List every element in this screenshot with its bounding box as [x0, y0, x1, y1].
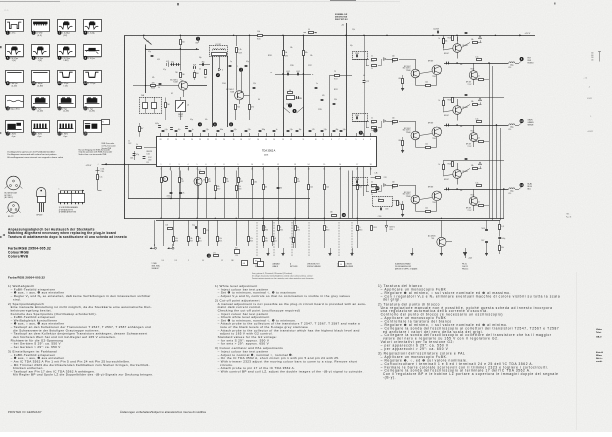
svg-text:1k: 1k — [158, 87, 160, 89]
resistor 1k left of IC — [135, 144, 157, 160]
svg-text:2,2k: 2,2k — [208, 179, 211, 181]
svg-text:50µs 4Vss: 50µs 4Vss — [10, 108, 19, 110]
labels top pin row numbers — [161, 169, 372, 171]
svg-text:14: 14 — [308, 169, 310, 171]
svg-text:10: 10 — [251, 164, 253, 166]
svg-text:150: 150 — [591, 59, 594, 61]
svg-text:C294: C294 — [355, 179, 359, 181]
svg-text:T248: T248 — [230, 91, 234, 93]
svg-text:1,8k: 1,8k — [257, 31, 260, 33]
output stage GRÜN output coil — [508, 124, 519, 131]
svg-text:1k: 1k — [371, 118, 373, 120]
svg-text:100n: 100n — [163, 179, 167, 181]
svg-text:56k: 56k — [501, 247, 504, 249]
page top edge marks — [0, 1, 556, 13]
junction dots on bus — [160, 218, 442, 219]
svg-text:1 Vss: 1 Vss — [10, 33, 15, 35]
svg-text:47µ: 47µ — [181, 179, 184, 181]
svg-text:330: 330 — [280, 188, 283, 190]
svg-text:T2568: T2568 — [406, 196, 411, 198]
wire left bus vertical — [124, 35, 126, 219]
svg-text:15: 15 — [323, 169, 325, 171]
capacitor row above IC — [155, 123, 188, 130]
svg-text:C280: C280 — [378, 216, 382, 218]
badge 10 below pin17 — [375, 186, 379, 190]
svg-text:R324: R324 — [274, 240, 277, 242]
oscillogram 18 waveform box — [32, 121, 50, 138]
transistor T233 BC548C right — [226, 89, 249, 104]
svg-text:16: 16 — [339, 169, 341, 171]
svg-text:4,43µ: 4,43µ — [155, 123, 159, 125]
svg-text:56k: 56k — [460, 190, 463, 192]
svg-text:R301: R301 — [280, 229, 284, 231]
svg-text:4 10/12: 4 10/12 — [587, 98, 592, 100]
capacitor cluster left-under IC — [130, 154, 145, 160]
svg-text:BF 469: BF 469 — [37, 215, 43, 217]
terminal number labels below bus — [162, 260, 234, 262]
output stage BLAU transistor BC558C — [403, 185, 420, 211]
svg-text:R234: R234 — [268, 55, 272, 57]
svg-text:27: 27 — [167, 139, 169, 141]
svg-text:4 µs: 4 µs — [12, 136, 16, 138]
svg-text:24: 24 — [191, 139, 193, 141]
svg-text:740: 740 — [175, 72, 178, 74]
svg-text:100k: 100k — [254, 182, 258, 184]
svg-text:14: 14 — [308, 164, 310, 166]
svg-text:(1,4V): (1,4V) — [38, 111, 44, 113]
oscillogram 17 waveform box — [6, 121, 24, 138]
german instructions column — [8, 284, 154, 377]
svg-text:C311: C311 — [163, 181, 166, 183]
output stage GRÜN output badge GRÜN — [519, 119, 534, 127]
svg-text:1,5k: 1,5k — [476, 118, 479, 120]
svg-text:... 1 b.: ... 1 b. — [583, 78, 588, 80]
output stage ROT resistor 56k feedback — [461, 39, 481, 48]
svg-text:R313: R313 — [208, 181, 212, 183]
svg-text:150: 150 — [297, 179, 300, 181]
svg-text:C302: C302 — [290, 238, 294, 240]
svg-text:4,7µ: 4,7µ — [234, 129, 237, 131]
svg-text:R307: R307 — [217, 188, 221, 190]
bottom right cut-off margin text — [596, 329, 603, 363]
oscillogram 9 waveform box — [6, 71, 24, 88]
svg-text:10: 10 — [315, 139, 317, 141]
+4,43 test point — [463, 253, 472, 260]
output stage ROT input resistor 220 — [392, 56, 411, 64]
connector box mid 10 — [339, 262, 345, 267]
svg-text:R265: R265 — [371, 61, 375, 63]
svg-text:15: 15 — [265, 139, 267, 141]
svg-text:8: 8 — [224, 164, 225, 166]
svg-text:1k: 1k — [478, 138, 480, 140]
oscillogram 12 waveform box — [83, 71, 101, 86]
svg-text:R252: R252 — [334, 79, 338, 81]
svg-text:C234: C234 — [355, 53, 359, 55]
svg-text:R323: R323 — [265, 240, 268, 242]
svg-text:4,7µ: 4,7µ — [136, 154, 139, 156]
svg-text:Videu: Videu — [596, 329, 603, 331]
svg-text:150: 150 — [297, 227, 300, 229]
svg-text:Colore/RVB: Colore/RVB — [8, 254, 29, 258]
resistor 10k on rail right — [303, 29, 316, 34]
svg-text:12: 12 — [277, 169, 279, 171]
svg-text:(1,8V): (1,8V) — [38, 85, 44, 87]
svg-text:R300: R300 — [265, 229, 269, 231]
capacitor pin10 330p — [277, 188, 283, 190]
green stage upper connect — [443, 97, 504, 100]
svg-text:470: 470 — [251, 107, 254, 109]
svg-text:Version RVB: Version RVB — [102, 147, 112, 150]
output stage GRÜN resistor 1,5k emitter — [415, 144, 437, 149]
svg-text:75: 75 — [359, 227, 361, 229]
svg-text:56k: 56k — [460, 126, 463, 128]
wire left bottom vertical x128 — [128, 164, 130, 198]
oscillogram 20 waveform box — [83, 121, 101, 136]
svg-text:1k: 1k — [439, 164, 441, 166]
svg-text:(1,5V): (1,5V) — [12, 85, 18, 87]
svg-text:BF 869: BF 869 — [428, 123, 433, 125]
svg-text:18: 18 — [370, 164, 372, 166]
svg-text:C4H 213: C4H 213 — [462, 266, 468, 268]
svg-text:8µF: 8µF — [193, 65, 196, 67]
wire +30 feed vertical — [341, 23, 347, 137]
transistor pinout BF top view — [6, 202, 20, 218]
svg-text:ROSSO: ROSSO — [528, 63, 535, 65]
capacitor 1000u right column — [498, 229, 505, 240]
svg-text:C312: C312 — [181, 181, 185, 183]
svg-text:9: 9 — [238, 169, 239, 171]
svg-text:100k: 100k — [130, 158, 134, 160]
svg-text:47n: 47n — [205, 119, 208, 121]
svg-text:C310: C310 — [101, 171, 105, 173]
svg-text:100: 100 — [166, 225, 169, 227]
resistor 1,8k right of pin17 — [371, 171, 388, 180]
svg-text:– With control BP and coil LZ,: – With control BP and coil LZ, adjust th… — [218, 369, 364, 373]
svg-text:3: 3 — [370, 139, 371, 141]
labels below-bus resistor designators — [265, 229, 363, 231]
resistor 4k7 left top of IC — [139, 123, 144, 137]
svg-text:30p: 30p — [199, 57, 202, 59]
svg-text:5: 5 — [356, 139, 357, 141]
svg-text:1,7k: 1,7k — [501, 226, 504, 228]
svg-text:+215 V: +215 V — [86, 165, 93, 167]
svg-text:R245: R245 — [257, 39, 261, 41]
svg-text:C244: C244 — [222, 83, 226, 85]
svg-text:GB-V.: GB-V. — [596, 337, 602, 339]
svg-text:1 (V): 1 (V) — [63, 85, 68, 87]
wire red stage collector to rail — [457, 35, 459, 41]
oscillogram 7 waveform box — [58, 45, 76, 63]
left lower labels U311 — [101, 169, 105, 174]
svg-text:C314: C314 — [226, 181, 230, 183]
svg-text:R229: R229 — [239, 53, 243, 55]
svg-text:9: 9 — [238, 164, 239, 166]
svg-text:+4 51/52: +4 51/52 — [587, 131, 593, 133]
svg-text:4,7k: 4,7k — [182, 193, 185, 195]
output stage BLAU resistor 56k feedback — [461, 165, 481, 174]
svg-text:8µF: 8µF — [204, 77, 207, 79]
pot 1k LZ coil box — [176, 97, 189, 120]
svg-text:BC 558 C: BC 558 C — [404, 66, 412, 68]
output stage BLAU output coil — [508, 188, 519, 195]
svg-text:– Regler V₁ und N₂ so einstell: – Regler V₁ und N₂ so einstellen, daß ke… — [11, 294, 151, 298]
svg-text:21: 21 — [215, 139, 217, 141]
badge 2 and diode — [216, 68, 223, 77]
svg-text:10k: 10k — [284, 52, 287, 54]
svg-text:Farbe/RGB 29504-005.32: Farbe/RGB 29504-005.32 — [8, 276, 45, 280]
svg-text:1 3,7µs: 1 3,7µs — [88, 58, 95, 60]
svg-text:740: 740 — [182, 74, 185, 76]
resistor 1,8k on rail — [257, 31, 263, 40]
resistor R307 62k — [215, 171, 221, 199]
output stage GRÜN transistor BC558C — [403, 121, 420, 147]
svg-text:1,8k: 1,8k — [375, 173, 378, 175]
svg-text:4k7: 4k7 — [141, 128, 144, 130]
svg-text:56k: 56k — [471, 39, 474, 41]
left signal label cluster — [152, 263, 161, 270]
svg-text:0,1µ: 0,1µ — [246, 61, 249, 63]
coupling resistor 470 mid bus — [290, 220, 295, 248]
svg-text:0,1µ: 0,1µ — [190, 119, 193, 121]
svg-text:1: 1 — [161, 169, 162, 171]
svg-text:4: 4 — [188, 169, 189, 171]
svg-text:11: 11 — [262, 169, 264, 171]
svg-text:68k: 68k — [399, 204, 402, 206]
output stage GRÜN resistor 1k lower — [474, 138, 490, 143]
svg-text:75: 75 — [265, 227, 267, 229]
resistor base divider 470 R246 — [133, 83, 179, 90]
connector box right — [258, 262, 264, 267]
svg-text:Solo in funz. con transcoder R: Solo in funz. con transcoder RVB — [79, 153, 108, 156]
svg-text:4 µs: 4 µs — [63, 136, 67, 138]
output stage ROT output coil — [508, 62, 519, 69]
extra small caps upper middle — [151, 56, 336, 105]
resistor 740 mid — [165, 98, 170, 121]
svg-text:220µ: 220µ — [510, 127, 514, 129]
left input area RGB transcoder text — [102, 142, 117, 150]
output stage GRÜN triangle symbol — [479, 98, 482, 105]
svg-text:2,2µ: 2,2µ — [206, 129, 209, 131]
svg-text:PH 212: PH 212 — [462, 264, 467, 266]
svg-text:T2568: T2568 — [406, 70, 411, 72]
svg-text:20: 20 — [223, 139, 225, 141]
svg-text:L280: L280 — [508, 67, 511, 69]
svg-text:10: 10 — [340, 264, 342, 266]
svg-text:1: 1 — [161, 164, 162, 166]
svg-text:470: 470 — [152, 83, 155, 85]
svg-text:130: 130 — [231, 260, 234, 262]
svg-text:3,3k: 3,3k — [334, 99, 337, 101]
svg-text:TBV. ↓: TBV. ↓ — [566, 214, 571, 216]
svg-text:TH248: TH248 — [470, 195, 474, 197]
left of IC extra labels — [128, 141, 153, 162]
svg-text:220: 220 — [199, 238, 202, 240]
svg-text:Nö ö r.: Nö ö r. — [596, 358, 603, 360]
below-bus vertical resistor row — [173, 237, 277, 243]
output stage ROT top transistor BF881 — [453, 37, 468, 59]
oscillogram 4 waveform box — [83, 20, 101, 35]
output stage GRÜN resistor 56k feedback — [461, 101, 481, 110]
svg-text:0,7µ: 0,7µ — [163, 69, 166, 71]
output stage BLAU triangle symbol — [479, 162, 482, 169]
svg-text:10: 10 — [251, 169, 253, 171]
oscillogram 15 waveform box — [58, 96, 76, 113]
svg-text:12 45: 12 45 — [4, 10, 9, 12]
oscillogram 3 waveform box — [58, 20, 76, 38]
wire +215V feed from waveform area — [86, 165, 103, 190]
svg-text:+30: +30 — [341, 25, 344, 27]
italian instructions column — [378, 284, 560, 380]
svg-text:500: 500 — [591, 53, 594, 55]
svg-text:1k: 1k — [371, 56, 373, 58]
caption RGB transcoder note — [79, 148, 113, 155]
svg-text:5: 5 — [197, 164, 198, 166]
output stage GRÜN resistor 1k collector — [439, 99, 453, 112]
wire bottom horizontal y198 — [128, 198, 310, 199]
svg-text:10k: 10k — [290, 47, 293, 49]
svg-text:C264: C264 — [355, 115, 359, 117]
svg-text:R318: R318 — [175, 240, 178, 242]
svg-text:T-CHNL: T-CHNL — [152, 263, 158, 265]
svg-text:C236: C236 — [290, 65, 294, 67]
svg-text:C316: C316 — [235, 255, 238, 257]
svg-text:C239: C239 — [318, 109, 322, 111]
svg-text:1k: 1k — [371, 182, 373, 184]
svg-text:U 307: U 307 — [148, 157, 152, 159]
svg-text:250: 250 — [591, 57, 594, 59]
svg-text:Telet.: Telet. — [596, 331, 602, 334]
wires IC bottom pins to bus — [162, 171, 358, 219]
svg-text:1,4k: 1,4k — [175, 238, 178, 240]
svg-text:100k: 100k — [147, 153, 151, 155]
svg-text:1000µ: 1000µ — [501, 238, 505, 240]
svg-text:7: 7 — [215, 164, 216, 166]
output stage BLAU resistor 68k — [399, 201, 405, 217]
transistor T306 BC328 bottom — [428, 220, 452, 255]
svg-text:BF 467: BF 467 — [444, 115, 449, 117]
svg-text:T2047: T2047 — [173, 82, 178, 84]
badge 3 node — [237, 66, 243, 93]
svg-text:GE: GE — [243, 263, 245, 265]
stage emitter network blue — [452, 159, 468, 167]
svg-text:1k: 1k — [439, 100, 441, 102]
red stage top cap 1,5u 250V — [433, 29, 443, 36]
oscillogram 8 waveform box — [83, 45, 101, 60]
svg-text:220µ: 220µ — [510, 191, 514, 193]
svg-text:2200µ: 2200µ — [167, 196, 171, 198]
svg-text:56k: 56k — [445, 41, 448, 43]
output stage GRÜN transistor BF869 — [420, 123, 442, 148]
output stage GRÜN transistor designators — [432, 100, 474, 141]
svg-text:U 311: U 311 — [101, 169, 105, 171]
svg-text:26: 26 — [175, 139, 177, 141]
bottom row badges 4 5 6 — [198, 122, 233, 126]
capacitor below bus 0,1u — [192, 224, 197, 229]
svg-text:0,52: 0,52 — [296, 71, 299, 73]
resistor R249 748 — [175, 72, 185, 78]
svg-text:2,2µ: 2,2µ — [324, 129, 327, 131]
title matching alignment block — [3, 228, 127, 239]
svg-text:23: 23 — [199, 139, 201, 141]
svg-text:1) VON UNTEN GESEHEN: 1) VON UNTEN GESEHEN — [59, 207, 78, 209]
resistor R247 800 with trimmer — [193, 65, 199, 81]
svg-text:R293: R293 — [373, 227, 377, 229]
below-bus left band wires — [155, 220, 273, 246]
svg-text:sind.: sind. — [13, 297, 21, 301]
caption oscillograms measured — [7, 150, 64, 158]
resistor R308 1,5k — [236, 171, 242, 199]
svg-text:R304: R304 — [359, 229, 363, 231]
svg-text:15: 15 — [323, 164, 325, 166]
oscillogram 20 side box — [101, 120, 110, 125]
capacitor 0,7u pair — [166, 61, 180, 67]
svg-text:2,2µ: 2,2µ — [248, 129, 251, 131]
svg-text:TH248: TH248 — [470, 131, 474, 133]
svg-text:C281: C281 — [384, 177, 388, 179]
svg-text:R235: R235 — [285, 56, 289, 58]
svg-text:17: 17 — [249, 139, 251, 141]
svg-text:C302: C302 — [128, 143, 132, 145]
svg-text:TH148: TH148 — [447, 164, 451, 166]
components below bus row — [263, 218, 396, 248]
luma line y75 with resistor 75R — [330, 35, 370, 136]
svg-text:(4,3): (4,3) — [38, 35, 42, 37]
svg-text:Kein A: Kein A — [596, 351, 603, 354]
svg-text:0,52: 0,52 — [286, 71, 289, 73]
output stage ROT transistor BF457 — [466, 63, 478, 86]
svg-text:Taratura di adattamento dopo l: Taratura di adattamento dopo la sostituz… — [8, 235, 127, 239]
svg-text:10: 10 — [128, 141, 130, 143]
output stage ROT output line — [411, 60, 509, 65]
resistor R286 1,5k pin13 — [308, 185, 314, 190]
svg-text:1µ: 1µ — [192, 129, 194, 131]
svg-text:C308: C308 — [148, 159, 152, 161]
svg-text:LW: LW — [147, 41, 150, 43]
svg-text:13: 13 — [294, 169, 296, 171]
svg-text:8: 8 — [331, 139, 332, 141]
svg-text:Gli oscillogrammi sono misurat: Gli oscillogrammi sono misurati con segn… — [7, 156, 64, 159]
svg-text:(1V): (1V) — [63, 35, 67, 37]
dashed box R290 C290 — [373, 197, 401, 211]
svg-text:3,3µ: 3,3µ — [343, 129, 346, 131]
output stage ROT resistor 1k collector — [439, 37, 453, 50]
svg-text:68p: 68p — [336, 129, 339, 131]
svg-text:– bei Geräten > 29″: ca. 650 V: – bei Geräten > 29″: ca. 650 V — [11, 345, 62, 349]
svg-text:18p: 18p — [299, 129, 302, 131]
IC DIP package pinout drawing — [59, 189, 85, 214]
svg-text:1,5k: 1,5k — [476, 56, 479, 58]
resistor 1,7k right column — [499, 220, 505, 229]
svg-text:BF 457: BF 457 — [466, 144, 471, 146]
svg-text:330p: 330p — [262, 129, 266, 131]
svg-text:U4: U4 — [258, 99, 260, 101]
svg-text:1,1k: 1,1k — [238, 49, 241, 51]
svg-text:RETOURN: RETOURN — [290, 266, 297, 268]
svg-text:2: 2 — [170, 164, 171, 166]
svg-text:0,1µ: 0,1µ — [165, 129, 168, 131]
svg-text:1,7k: 1,7k — [213, 252, 216, 254]
output stage ROT resistor 68k — [399, 75, 405, 91]
junction dots on top rail — [143, 35, 496, 36]
blue channel input network C294 — [353, 178, 393, 197]
svg-text:T2548: T2548 — [432, 138, 436, 140]
output stage BLAU output badge BLAU — [519, 183, 533, 191]
svg-text:PH4/21.6: PH4/21.6 — [462, 268, 468, 270]
svg-text:1n: 1n — [276, 129, 278, 131]
oscillogram 11 waveform box — [58, 71, 76, 88]
red stage resistor 56k R255 — [443, 35, 448, 48]
footer printed in germany — [8, 410, 206, 414]
